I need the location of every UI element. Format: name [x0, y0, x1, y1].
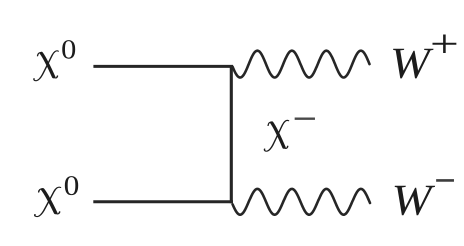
- node: top-left superscript 0: [62, 40, 75, 59]
- node: chargino propagator label chi: [264, 120, 288, 151]
- node: bottom-left neutralino label chi: [35, 187, 61, 216]
- wire: top incoming neutralino fermion line: [93, 65, 233, 68]
- wire: vertical chargino propagator line: [230, 65, 233, 203]
- node: top-left neutralino label chi: [34, 51, 58, 81]
- node: bottom-left superscript 0: [65, 176, 78, 195]
- node: W+ label W: [393, 49, 433, 79]
- wire: top W+ boson wavy line: [233, 51, 370, 78]
- wire: bottom incoming neutralino fermion line: [93, 200, 233, 203]
- node: W- superscript minus: [436, 179, 454, 182]
- wire: bottom W- boson wavy line: [233, 189, 370, 215]
- node: chargino superscript minus: [295, 117, 315, 119]
- node: W+ superscript plus: [432, 35, 456, 54]
- node: W- label W: [395, 186, 435, 215]
